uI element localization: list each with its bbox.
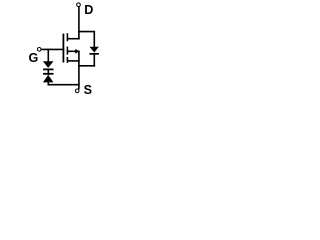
wire: body-diode branch vertical upper: [93, 32, 95, 48]
terminal D (open circle): [77, 3, 81, 7]
svg-text:D: D: [84, 3, 93, 17]
svg-text:S: S: [84, 83, 92, 97]
terminal S (open circle): [75, 89, 79, 93]
MOSFET channel segment middle: [66, 47, 68, 55]
wire: source vertical from arrow junction down to S terminal: [78, 51, 80, 90]
wire: drain lead horizontal to MOSFET channel: [67, 38, 80, 40]
wire: body lead with arrow pointing right: [68, 50, 76, 52]
zener Z2: triangle pointing up: [43, 75, 54, 83]
zener Z2: cathode bar: [43, 73, 53, 75]
zener Z1: triangle pointing down: [43, 61, 54, 68]
wire: body-diode branch vertical lower: [93, 55, 95, 67]
diode body: cathode bar: [90, 53, 99, 55]
wire: zener stack vertical upper: [47, 49, 49, 62]
terminal G (open circle): [37, 48, 41, 52]
MOSFET channel segment top: [66, 33, 68, 41]
svg-text:G: G: [29, 51, 39, 65]
MOSFET channel segment bottom: [66, 57, 68, 63]
wire: zener stack vertical lower: [47, 82, 49, 86]
wire: bottom rail from zener stack to source vertical: [48, 84, 80, 86]
wire: body-diode top branch horizontal: [78, 31, 95, 33]
wire: body-diode bottom branch horizontal: [78, 65, 95, 67]
MOSFET gate bar: [62, 34, 64, 63]
wire: drain vertical from D terminal down to drain lead: [78, 7, 80, 40]
wire: source lead horizontal: [68, 60, 80, 62]
zener Z1: cathode bar: [43, 69, 53, 71]
diode body: triangle pointing down: [90, 47, 99, 53]
arrowhead of body lead: [75, 49, 79, 54]
wire: gate lead horizontal from G terminal to gate bar: [41, 48, 64, 50]
wire: zener midpoint vertical: [47, 69, 49, 75]
